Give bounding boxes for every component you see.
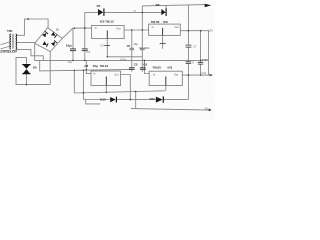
junction D7 line / x142 riser — [142, 12, 144, 14]
junction x83 drop on wire A — [83, 70, 85, 72]
capacitor C10 plates — [198, 62, 203, 64]
wire drop x74.3 to gnd rail corner — [73, 70, 75, 93]
svg-text:D8: D8 — [156, 3, 160, 7]
svg-text:12V: 12V — [208, 28, 213, 32]
junction C10 column on minus rail — [200, 60, 202, 62]
box3 center pin glyph — [105, 76, 107, 85]
wire D7 cathode to node — [104, 11, 142, 13]
wire TVS loop top and left — [16, 57, 50, 84]
bridge diode D3 — [42, 33, 46, 37]
svg-text:100n: 100n — [120, 58, 127, 62]
capacitor C9 plates — [186, 62, 191, 64]
wire D7 riser and C2 column — [84, 12, 86, 60]
svg-text:C8: C8 — [84, 64, 88, 68]
wire box4 out to edge — [182, 74, 212, 76]
svg-text:10µ: 10µ — [93, 64, 98, 68]
svg-text:10µ+: 10µ+ — [66, 43, 73, 47]
wire box1 out to box2 in — [124, 29, 149, 31]
wire D8 anode line — [142, 11, 161, 13]
svg-text:Out: Out — [114, 72, 118, 76]
svg-text:Out: Out — [174, 72, 178, 76]
svg-text:100n: 100n — [201, 58, 208, 62]
terminal arrow +5V — [205, 4, 212, 8]
wire minus rail — [35, 43, 201, 60]
wire TVS bottom lead — [25, 74, 27, 85]
diode D11 — [156, 97, 163, 103]
junction box3 gnd pin on gnd rail — [106, 91, 108, 93]
wire C5 riser column — [131, 30, 133, 72]
bridge diode D2 — [51, 42, 55, 46]
junction x74 drop on wire A — [74, 70, 76, 72]
wire box3 input drop — [86, 60, 91, 73]
svg-text:C10: C10 — [202, 72, 207, 75]
svg-text:IC5 78L12: IC5 78L12 — [100, 19, 114, 23]
wire D7 anode line — [85, 11, 98, 13]
svg-text:B1: B1 — [56, 27, 60, 31]
wire C1 column — [72, 28, 74, 60]
wire A above box3 — [40, 60, 132, 71]
junction box3 input drop on wire A — [86, 69, 88, 71]
junction +5V riser on box2 out wire — [188, 30, 190, 32]
svg-text:C2: C2 — [87, 50, 91, 54]
wire riser x188 column with caps C7 C9 — [187, 5, 189, 100]
junction x188 column on box4 out wire — [188, 74, 190, 76]
wire drop x83.4 to D10 line — [82, 70, 84, 99]
capacitor C6 stub below — [141, 70, 143, 72]
capacitor C5 plates — [129, 68, 135, 70]
capacitor C7 plates — [186, 45, 192, 47]
transformer T1 primary winding — [10, 34, 11, 49]
svg-text:2x15V: 2x15V — [8, 49, 18, 53]
wire box2 gnd pin extension — [162, 35, 164, 48]
junction on top loop wire — [27, 18, 29, 20]
wire D8 cathode to rail — [165, 5, 167, 12]
wire box3 gnd pin extension — [105, 86, 107, 93]
node A: D7 riser / C2 / plus rail — [84, 27, 86, 29]
svg-text:79L05: 79L05 — [152, 66, 161, 70]
wire riser gnd to bottom rail — [135, 92, 137, 109]
svg-text:D9: D9 — [33, 65, 37, 69]
junction box4 input drop on minus rail — [144, 60, 146, 62]
junction box2 input node — [142, 29, 144, 31]
junction x83 drop on gnd rail — [83, 92, 85, 94]
TVS diode D9 bowtie — [23, 65, 31, 69]
regulator box2 IC2 — [149, 24, 181, 35]
svg-text:D10: D10 — [100, 97, 106, 101]
junction box3 out drop on D10 line — [130, 99, 132, 101]
capacitor C6a mini plates on riser2 — [140, 48, 145, 50]
terminal mark bottom right — [209, 108, 212, 111]
wire box4 gnd pin extension — [165, 86, 167, 91]
transformer T1 secondary winding — [16, 34, 17, 49]
box1 gnd pin crossbar — [104, 45, 110, 47]
svg-text:D11: D11 — [150, 97, 156, 101]
capacitor C6 plates — [140, 68, 146, 70]
svg-text:47µ: 47µ — [68, 60, 73, 64]
wire C10 column — [200, 31, 202, 75]
junction C1 to plus rail — [74, 27, 76, 29]
wire secondary bottom staircase — [16, 49, 43, 60]
junction C10 column on box4 out wire — [200, 74, 201, 75]
wire bottom rail — [131, 109, 210, 111]
svg-text:IC6: IC6 — [163, 20, 168, 24]
bridge diode D4 — [43, 41, 47, 45]
svg-text:IC8: IC8 — [168, 66, 173, 70]
diode D8 — [161, 9, 165, 15]
box2 center pin glyph — [162, 28, 164, 36]
junction C1 to minus rail — [72, 60, 74, 62]
wire box4 input drop — [144, 60, 149, 73]
wire riser x142 column — [141, 6, 143, 68]
svg-text:100n: 100n — [144, 46, 150, 50]
svg-text:0V: 0V — [205, 106, 208, 110]
wire +5V top rail — [142, 5, 207, 6]
wire gnd lower rail — [74, 91, 165, 93]
wire bridge right to plus rail diagonal — [62, 28, 91, 38]
terminal mark mid right — [210, 74, 213, 77]
wire box1 gnd pin extension — [106, 39, 108, 57]
svg-text:C5: C5 — [134, 62, 138, 66]
regulator box1 IC1 — [92, 26, 125, 39]
diode D10 — [110, 97, 116, 102]
junction box1 output / C5 riser — [131, 29, 133, 31]
svg-text:10µ: 10µ — [133, 42, 138, 46]
wire stub to bottom rail — [86, 100, 101, 104]
box2 gnd pin crossbar — [160, 43, 166, 45]
svg-text:C6: C6 — [143, 62, 147, 66]
junction bottom rail riser on gnd rail — [135, 91, 137, 93]
box4 center pin glyph — [165, 76, 167, 85]
junction C2 to minus rail — [84, 60, 86, 62]
svg-text:TR1: TR1 — [7, 29, 13, 33]
wire D10 D11 line — [83, 99, 188, 101]
wire box3 out drop — [121, 75, 131, 100]
mains input wires — [1, 42, 10, 49]
junction box1 gnd pin to mid rail — [107, 56, 109, 58]
regulator box3 IC3 — [91, 71, 121, 86]
junction C10 column on box2 out wire — [200, 30, 202, 32]
wire bridge bottom leg — [49, 52, 51, 85]
diode D7 — [98, 9, 103, 16]
svg-text:78L05: 78L05 — [151, 20, 160, 24]
junction D9 lead on bottom loop rail — [26, 84, 28, 86]
bridge diode D1 — [51, 32, 55, 36]
wire secondary top to bridge top loop — [16, 19, 48, 35]
bridge diamond edges — [35, 28, 63, 52]
svg-text:C3: C3 — [100, 44, 104, 48]
box1 center pin glyph — [106, 31, 108, 39]
svg-text:C5: C5 — [127, 44, 131, 48]
svg-text:C7: C7 — [193, 44, 197, 48]
capacitor C1 plates — [70, 49, 76, 51]
svg-text:79L12: 79L12 — [100, 64, 109, 68]
wire gnd mid rail — [107, 56, 142, 58]
svg-text:Out: Out — [174, 25, 178, 29]
wire secondary mid to bridge left — [16, 42, 35, 44]
transformer T1 core — [13, 34, 14, 49]
capacitor C5a mini plates on riser1 — [130, 48, 135, 50]
regulator box4 IC4 — [149, 71, 182, 85]
wire box2 out to right corner — [180, 31, 208, 75]
svg-text:Out: Out — [116, 27, 120, 31]
svg-text:D7: D7 — [97, 4, 101, 8]
capacitor C2 plates — [82, 49, 88, 51]
